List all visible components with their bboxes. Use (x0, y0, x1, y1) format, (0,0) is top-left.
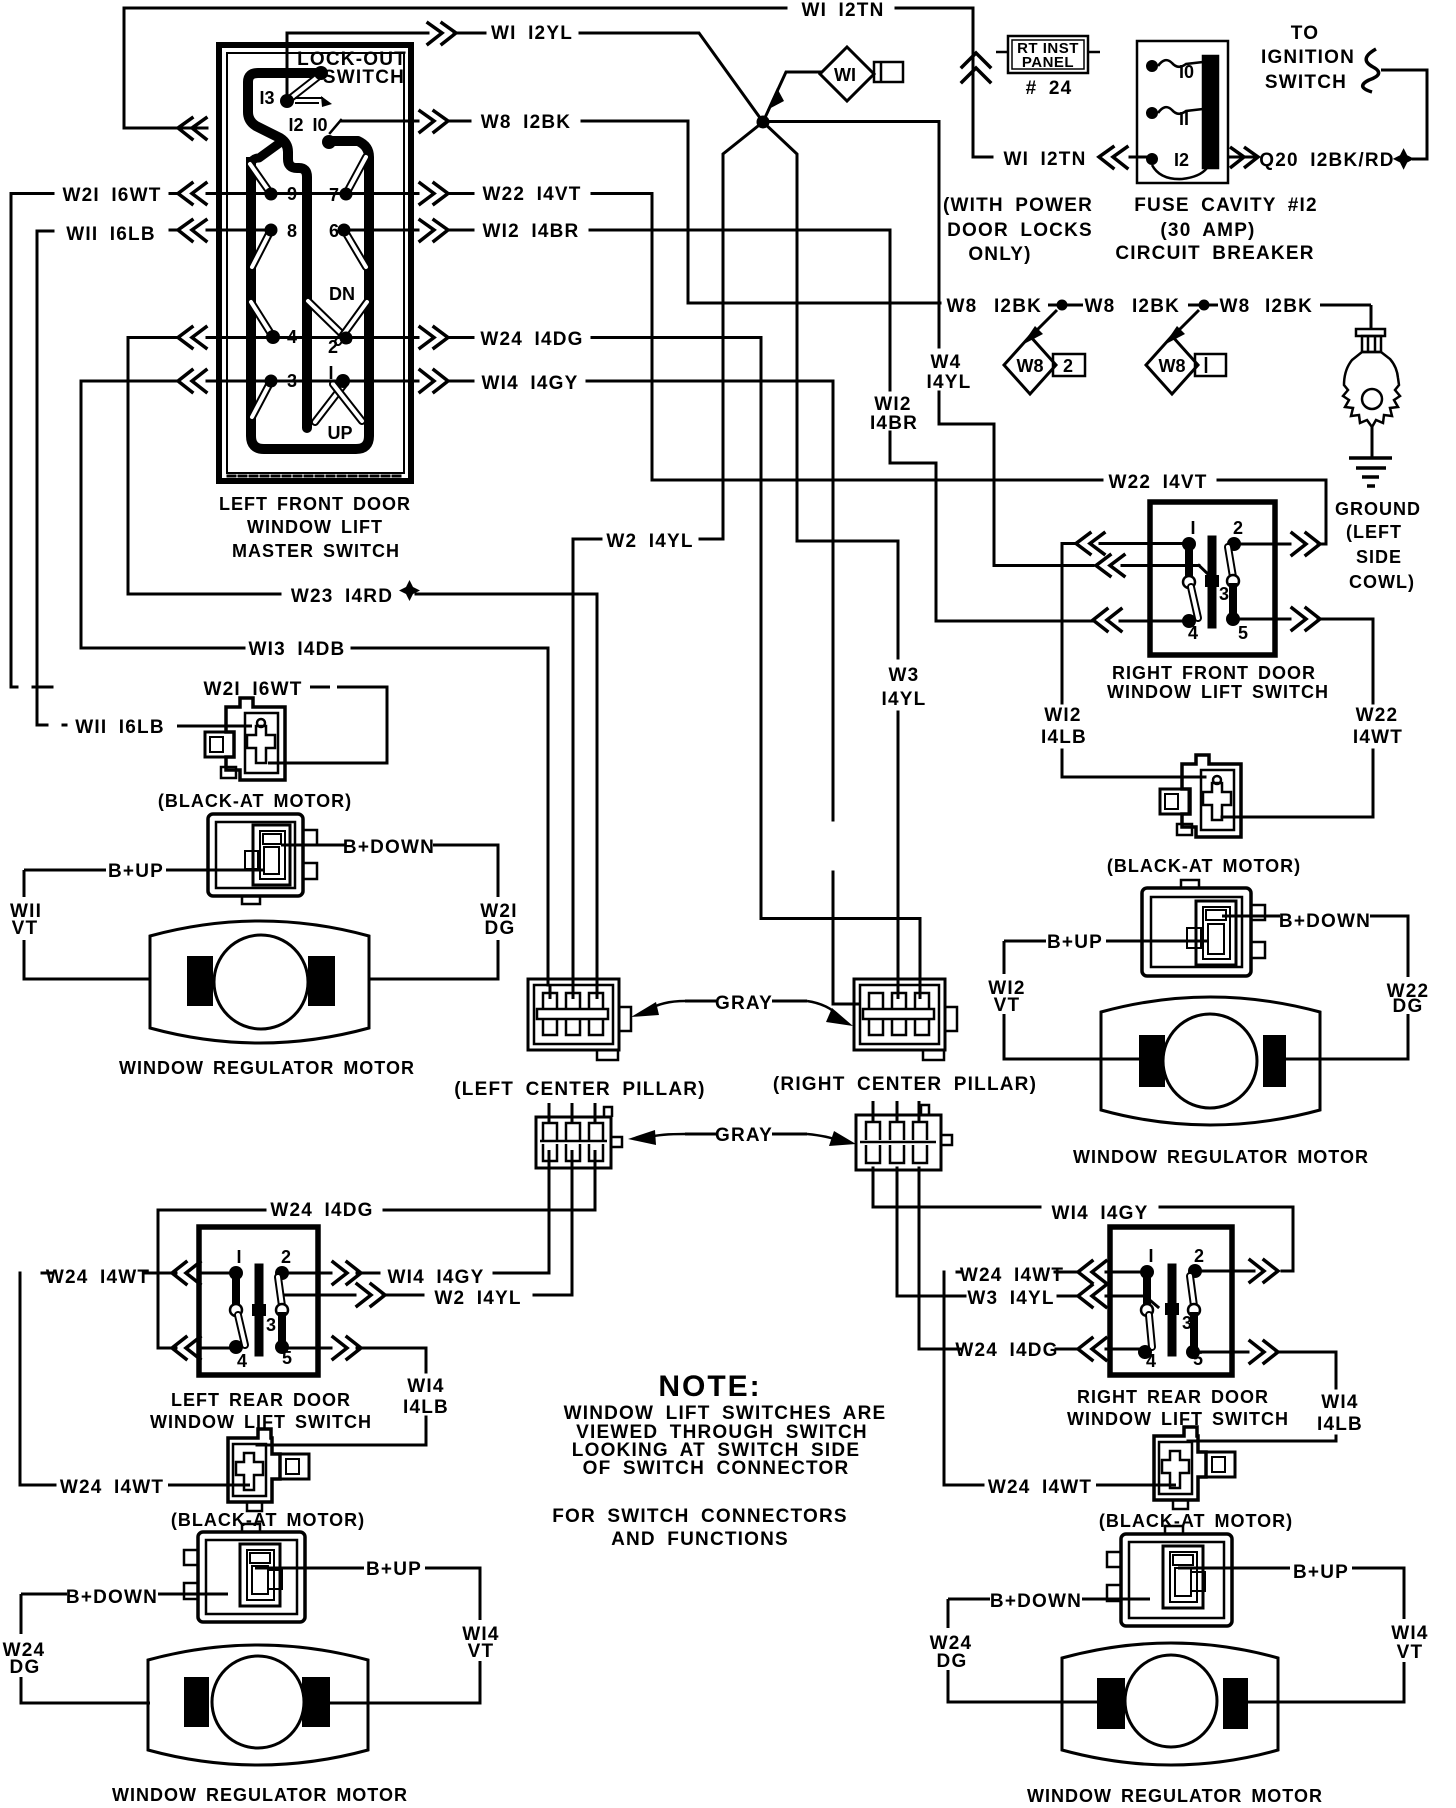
pin 6 lever (344, 230, 366, 267)
right front door window lift switch box (1150, 502, 1275, 655)
wire W8 12BK segments with junction dots (1048, 304, 1083, 307)
arrow to diamond W8 1 (1172, 310, 1199, 337)
svg-text:Q20 I2BK/RD: Q20 I2BK/RD (1259, 150, 1394, 171)
wire W1 12YL (287, 33, 428, 95)
RRD pin 1 dot and bar (1140, 1265, 1154, 1279)
ignition switch squiggle (1363, 49, 1379, 92)
svg-text:B+DOWN: B+DOWN (990, 1591, 1082, 1612)
svg-text:W8: W8 (1159, 356, 1186, 376)
svg-text:VT: VT (1397, 1642, 1424, 1663)
wire W24 14WT to RR connector (1096, 1484, 1176, 1487)
svg-text:TO: TO (1291, 23, 1319, 44)
wire labels: W1 12TN, W1 12YL, W8 12BK, W22 14VT, W12 14BR, W24 14DG, W14 14GY, W21 16WT, W11 16LB (62, 0, 1086, 394)
pin 1 UP levers (315, 383, 345, 422)
LRD pin 1 dot and bar (229, 1266, 243, 1280)
svg-text:DOOR LOCKS: DOOR LOCKS (947, 220, 1093, 241)
svg-text:LEFT FRONT DOOR: LEFT FRONT DOOR (219, 494, 411, 514)
svg-text:WI: WI (834, 65, 856, 85)
svg-text:I2: I2 (288, 115, 303, 135)
RFD row3 wire (pin 4) (936, 620, 1093, 623)
chevron right W22 14VT (420, 183, 448, 204)
GRAY label lower with arrows (685, 1133, 716, 1136)
svg-text:ONLY): ONLY) (968, 244, 1031, 265)
RFD lever 1-4 (1191, 587, 1198, 618)
wire W2 14YL vertical from junction (700, 122, 763, 539)
svg-text:DG: DG (937, 1651, 968, 1672)
fuse cavity #12 circuit breaker box (1137, 41, 1228, 183)
svg-text:# 24: # 24 (1026, 78, 1073, 99)
wire W1 12TN down to breaker (973, 8, 992, 157)
wire W24 14WT row1 LRD (20, 1273, 55, 1485)
svg-text:5: 5 (1193, 1349, 1203, 1369)
chevron right LRD pin2 (333, 1262, 361, 1284)
svg-text:W22 I4VT: W22 I4VT (1108, 472, 1207, 493)
svg-text:WINDOW REGULATOR MOTOR: WINDOW REGULATOR MOTOR (119, 1058, 415, 1078)
chevron right pin1 row (420, 370, 448, 392)
wire W24 14WT row1 RRD (944, 1272, 983, 1485)
labels B+UP B+DOWN W11 VT W21 DG LF (10, 837, 518, 939)
svg-text:LEFT REAR DOOR: LEFT REAR DOOR (171, 1390, 351, 1410)
svg-text:I: I (1148, 1246, 1153, 1266)
svg-text:5: 5 (282, 1348, 292, 1368)
RRD lever 2-3 (1190, 1276, 1194, 1306)
chevron right LRD pin3 (357, 1284, 385, 1306)
svg-text:W24 I4WT: W24 I4WT (60, 1477, 164, 1498)
label W24 14WT to RR motor connector (988, 1477, 1092, 1498)
LRD pin 2 dot (275, 1266, 289, 1280)
wire W3 14YL from lower pillar to RRD pin3 (897, 1168, 965, 1296)
svg-text:I4LB: I4LB (1041, 727, 1087, 748)
svg-text:(BLACK-AT MOTOR): (BLACK-AT MOTOR) (158, 791, 352, 811)
svg-text:WI I2TN: WI I2TN (1003, 149, 1086, 170)
svg-text:W24 I4WT: W24 I4WT (960, 1265, 1064, 1286)
wire W21 16WT row at pin 9 (207, 192, 271, 195)
svg-text:FOR SWITCH CONNECTORS: FOR SWITCH CONNECTORS (552, 1506, 848, 1527)
svg-text:DG: DG (485, 918, 516, 939)
connector diamond W8 2 (1004, 336, 1056, 394)
svg-text:2: 2 (1194, 1246, 1204, 1266)
svg-text:2: 2 (1233, 518, 1243, 538)
svg-text:COWL): COWL) (1349, 572, 1415, 592)
ground symbol (left side cowl) (1349, 456, 1392, 460)
svg-text:WI2 I4BR: WI2 I4BR (483, 221, 580, 242)
svg-text:4: 4 (1146, 1351, 1156, 1371)
RFD pin2 output wire to W22 14VT (1234, 543, 1290, 546)
svg-text:RIGHT FRONT DOOR: RIGHT FRONT DOOR (1112, 663, 1316, 683)
connector right center pillar (lower) (856, 1115, 941, 1170)
svg-text:W22: W22 (1356, 705, 1399, 726)
labels breaker pins 10 11 12 and FUSE CAVITY / WITH POWER DOOR LOCKS (943, 62, 1318, 265)
junction dot 2 (1199, 300, 1210, 311)
svg-text:AND FUNCTIONS: AND FUNCTIONS (611, 1529, 789, 1550)
labels LRD switch pins, name and wire labels (46, 1200, 522, 1432)
svg-text:2: 2 (281, 1247, 291, 1267)
wire W24 14WT to LR connector (168, 1484, 250, 1487)
chevron right pin2 row (420, 327, 448, 348)
svg-text:WINDOW REGULATOR MOTOR: WINDOW REGULATOR MOTOR (1073, 1147, 1369, 1167)
wire B+UP RR (1178, 1567, 1290, 1570)
svg-text:WINDOW LIFT SWITCH: WINDOW LIFT SWITCH (1107, 682, 1329, 702)
master switch thick trace (pin 12/13 hook and divider) (248, 73, 321, 428)
chevron up on W1 12TN vertical (962, 53, 990, 82)
svg-text:WINDOW LIFT SWITCH: WINDOW LIFT SWITCH (1067, 1409, 1289, 1429)
svg-text:PANEL: PANEL (1022, 54, 1074, 71)
wire W22 14VT from pin 7 (346, 192, 418, 195)
svg-text:WINDOW REGULATOR MOTOR: WINDOW REGULATOR MOTOR (1027, 1786, 1323, 1806)
wire W1 12TN top run (124, 8, 786, 128)
svg-text:RIGHT REAR DOOR: RIGHT REAR DOOR (1077, 1387, 1269, 1407)
svg-text:SIDE: SIDE (1356, 547, 1402, 567)
svg-text:WINDOW REGULATOR MOTOR: WINDOW REGULATOR MOTOR (112, 1785, 408, 1805)
pin 8 lever (252, 230, 271, 267)
svg-text:CIRCUIT BREAKER: CIRCUIT BREAKER (1115, 243, 1314, 264)
svg-text:B+UP: B+UP (108, 861, 164, 882)
svg-text:I: I (1190, 518, 1195, 538)
svg-text:GROUND: GROUND (1335, 499, 1421, 519)
svg-text:W24 I4WT: W24 I4WT (46, 1267, 150, 1288)
svg-text:W4: W4 (931, 352, 962, 373)
RRD pin 5 dot (1186, 1345, 1200, 1359)
chevron left LRD pin1 (172, 1262, 200, 1284)
RRD pin 3 bar (1168, 1268, 1177, 1352)
svg-text:(BLACK-AT MOTOR): (BLACK-AT MOTOR) (1099, 1511, 1293, 1531)
RFD row1 wire (pin 1 / W12 14LB) (1062, 542, 1076, 545)
note text block (552, 1370, 886, 1550)
wire W23 14RD from pin 4 (128, 338, 280, 595)
svg-text:I2BK: I2BK (1265, 296, 1313, 317)
pin 4 lever (251, 302, 273, 337)
wire W3 14YL from junction (763, 122, 898, 658)
svg-text:4: 4 (1188, 623, 1198, 643)
LRD pin 5 dot (275, 1340, 289, 1354)
chevron left RRD pin1 (1078, 1261, 1106, 1283)
star on W23 14RD label (399, 580, 420, 601)
wire stubs into upper left pillar connector (549, 985, 552, 999)
chevron left W1 12TN at breaker (1099, 147, 1127, 168)
svg-text:I2BK: I2BK (1132, 296, 1180, 317)
B+ connector RF (1142, 888, 1251, 976)
svg-text:WI4: WI4 (407, 1376, 444, 1397)
svg-text:WI2: WI2 (1044, 705, 1081, 726)
svg-text:W8: W8 (1085, 296, 1116, 317)
wire W24 14DG from lower pillar to RRD pin4 (919, 1168, 960, 1349)
wire B+DOWN RR (948, 1598, 990, 1601)
svg-text:W2I I6WT: W2I I6WT (203, 679, 302, 700)
svg-text:W22 I4VT: W22 I4VT (482, 184, 581, 205)
RFD pin 3 bar (1208, 540, 1217, 624)
left rear door window lift switch box (199, 1227, 318, 1375)
svg-text:DG: DG (10, 1657, 41, 1678)
chevron right W1 12YL (428, 23, 456, 44)
connector diamond W8 1 (1146, 336, 1198, 394)
svg-text:VT: VT (12, 918, 39, 939)
svg-text:2: 2 (1063, 356, 1073, 376)
svg-text:3: 3 (266, 1315, 276, 1335)
rt inst panel #24 box (1008, 36, 1088, 73)
black-at-motor connector RF (1182, 755, 1241, 837)
svg-text:FUSE CAVITY #I2: FUSE CAVITY #I2 (1134, 195, 1318, 216)
svg-text:5: 5 (1238, 623, 1248, 643)
svg-text:2: 2 (328, 337, 338, 357)
svg-text:DN: DN (329, 284, 355, 304)
svg-text:DG: DG (1393, 996, 1424, 1017)
pin 13 lever (287, 76, 319, 101)
RFD pin 1 dot and bar (1182, 537, 1196, 551)
chevron left RRD pin4 (1078, 1338, 1106, 1360)
wire W21 16WT label2 to connector (310, 686, 330, 689)
chevron left W22 14VT at master (178, 183, 206, 204)
arrow to diamond W8 2 (1030, 310, 1057, 337)
master switch texts: LOCK-OUT SWITCH, pin numbers, DN/UP, name (219, 49, 411, 561)
svg-text:I4LB: I4LB (403, 1397, 449, 1418)
wire B+DOWN RF (1222, 915, 1280, 918)
black-at-motor connector LR (228, 1429, 280, 1502)
labels RRD switch pins, name and wire labels (955, 1203, 1363, 1435)
svg-text:WI2: WI2 (874, 394, 911, 415)
junction dot 1 (1057, 300, 1068, 311)
LRD pin 3 bar (255, 1268, 264, 1352)
labels GRAY and center pillar names (454, 993, 1037, 1146)
label W24 14WT to LR motor connector (60, 1477, 164, 1498)
breaker pin 10 dot and wire (1146, 60, 1158, 72)
svg-text:II: II (1179, 109, 1189, 129)
wire W13 14DB from pin 3 (81, 381, 244, 648)
chevron right LRD pin5 (333, 1337, 361, 1359)
left front door window lift master switch outer box (219, 45, 411, 481)
wire W11 16LB label2 to connector (177, 725, 252, 728)
RRD pin 2 dot (1188, 1264, 1202, 1278)
svg-text:WII I6LB: WII I6LB (75, 717, 165, 738)
connector right center pillar (upper) (854, 979, 945, 1050)
svg-text:I0: I0 (1179, 62, 1194, 82)
pin 9 lever (250, 164, 271, 194)
right rear door window lift switch box (1110, 1227, 1232, 1375)
chevron left RFD pin4 (1093, 609, 1121, 631)
wire B+UP LR (255, 1567, 364, 1570)
svg-text:(RIGHT CENTER PILLAR): (RIGHT CENTER PILLAR) (773, 1074, 1037, 1095)
svg-text:SWITCH: SWITCH (323, 67, 405, 88)
RFD pin 2 dot (1227, 537, 1241, 551)
pin 3 lever (252, 381, 271, 417)
junction node (power feed) (757, 116, 770, 129)
labels B+UP B+DOWN W24 DG W14 VT RR (930, 1562, 1429, 1672)
svg-text:I3: I3 (259, 88, 274, 108)
wire W8 12BK from pin 10 (341, 120, 418, 123)
chevron right W8 12BK (420, 111, 448, 132)
star on Q20 label (1393, 148, 1415, 170)
master switch pin dots (314, 66, 328, 80)
wire W1 to diamond connector (763, 72, 820, 122)
svg-text:VT: VT (994, 995, 1021, 1016)
chevron right RFD pin2 (1292, 533, 1320, 555)
chevron left pin3 row (178, 370, 206, 392)
svg-text:WI4: WI4 (1321, 1392, 1358, 1413)
labels W21 16WT / W11 16LB at LF connector (75, 679, 302, 738)
LRD lever 2-3 (278, 1277, 282, 1306)
connector left center pillar (upper) (528, 979, 619, 1050)
chevron left W1 12TN at master switch (178, 118, 206, 139)
lock-out actuation arrow (296, 97, 322, 99)
breaker pin 12 dot and curve (1146, 153, 1158, 165)
breaker bus bar (1203, 56, 1218, 168)
svg-text:W8: W8 (1220, 296, 1251, 317)
svg-text:W24 I4WT: W24 I4WT (988, 1477, 1092, 1498)
B+ connector LR (198, 1532, 305, 1622)
black-at-motor connector LF (226, 698, 285, 780)
chevron right W12 14BR (420, 220, 448, 241)
chevron right RFD pin5 (1292, 608, 1320, 630)
svg-text:WI4: WI4 (1391, 1623, 1428, 1644)
svg-text:W2 I4YL: W2 I4YL (606, 531, 693, 552)
B+ connector RR (1121, 1534, 1232, 1626)
svg-text:WINDOW LIFT: WINDOW LIFT (247, 517, 383, 537)
svg-text:B+DOWN: B+DOWN (343, 837, 435, 858)
RFD lever 2-3 (1228, 547, 1233, 577)
svg-text:(BLACK-AT MOTOR): (BLACK-AT MOTOR) (1107, 856, 1301, 876)
labels RFD switch pins and name, W12 14LB, W22 14WT (1041, 518, 1403, 748)
wire Q20 12BK/RD to ignition (1228, 156, 1258, 159)
svg-text:GRAY: GRAY (715, 1125, 773, 1146)
svg-text:W8 I2BK: W8 I2BK (481, 112, 571, 133)
RFD pin 4 dot (1182, 614, 1196, 628)
svg-text:OF SWITCH CONNECTOR: OF SWITCH CONNECTOR (583, 1458, 850, 1479)
svg-text:(WITH POWER: (WITH POWER (943, 195, 1093, 216)
wire W14 14GY row pins 3/1 (81, 380, 176, 383)
window regulator motor LR (148, 1645, 368, 1765)
svg-text:(30 AMP): (30 AMP) (1160, 220, 1255, 241)
svg-text:W24 I4DG: W24 I4DG (955, 1340, 1058, 1361)
svg-text:W3: W3 (889, 665, 920, 686)
svg-text:I: I (236, 1247, 241, 1267)
svg-text:3: 3 (1219, 584, 1229, 604)
LRD bar 3-5 (278, 1316, 286, 1344)
chevron left RFD pin3 (1096, 555, 1124, 576)
pin 7 lever (346, 157, 366, 194)
black-at-motor connector RR (1154, 1427, 1206, 1500)
LRD lever 1-4 (238, 1315, 245, 1345)
chevron right RRD pin5 (1250, 1341, 1278, 1363)
svg-text:WI I2TN: WI I2TN (801, 0, 884, 21)
wire W24 14DG row pins 4/2 (128, 336, 176, 339)
chevron left LRD pin4 (172, 1337, 200, 1359)
svg-text:GRAY: GRAY (715, 993, 773, 1014)
svg-text:(LEFT CENTER PILLAR): (LEFT CENTER PILLAR) (454, 1079, 705, 1100)
wire W14 14LB from LRD pin5 (282, 1347, 331, 1350)
svg-text:B+DOWN: B+DOWN (1279, 911, 1371, 932)
svg-text:IGNITION: IGNITION (1261, 47, 1355, 68)
svg-text:W24 I4DG: W24 I4DG (480, 329, 583, 350)
svg-text:8: 8 (287, 221, 297, 241)
svg-text:WI3 I4DB: WI3 I4DB (249, 639, 346, 660)
svg-text:WI4 I4GY: WI4 I4GY (482, 373, 579, 394)
svg-text:W8: W8 (1017, 356, 1044, 376)
window regulator motor RR (1062, 1643, 1278, 1765)
wire W14 14LB from RRD pin5 (1193, 1351, 1248, 1354)
breaker pin 11 dot and wire (1146, 107, 1158, 119)
RRD bar 3-5 (1190, 1316, 1198, 1349)
pin 10 slash to W8 line (330, 120, 341, 133)
wire W11 16LB (207, 229, 271, 232)
wire B+DOWN LR (21, 1593, 67, 1596)
GRAY label upper with arrows (685, 1000, 716, 1003)
window regulator motor RF (1101, 997, 1320, 1125)
svg-text:W8: W8 (947, 296, 978, 317)
chevron right RRD pin2 (1250, 1260, 1278, 1282)
svg-text:W2 I4YL: W2 I4YL (434, 1288, 521, 1309)
svg-text:W2I I6WT: W2I I6WT (62, 185, 161, 206)
svg-text:MASTER SWITCH: MASTER SWITCH (232, 541, 400, 561)
svg-text:I0: I0 (312, 115, 327, 135)
svg-text:I2BK: I2BK (994, 296, 1042, 317)
labels RT INST PANEL #24 (1017, 40, 1079, 99)
svg-text:W24 I4DG: W24 I4DG (270, 1200, 373, 1221)
wire W14 14GY from LRD pin2 to lower pillar (282, 1272, 331, 1275)
B+ connector LF (208, 814, 303, 896)
master switch thick loop (251, 142, 281, 166)
svg-text:(BLACK-AT MOTOR): (BLACK-AT MOTOR) (171, 1510, 365, 1530)
svg-text:(LEFT: (LEFT (1346, 522, 1402, 542)
wire labels mid: W23 14RD, W13 14DB, W2 14YL, W4 14YL, W12 14BR, W3 14YL, W22 14VT (249, 352, 1208, 710)
RFD pin 5 dot (1226, 612, 1240, 626)
lamp ground stem (1371, 426, 1374, 457)
chevron left RRD pin3 (1078, 1285, 1106, 1307)
window regulator motor LF (150, 921, 369, 1043)
wire W4 14YL from junction to pin 3 RFD (763, 122, 939, 348)
svg-text:NOTE:: NOTE: (658, 1370, 761, 1403)
labels B+UP B+DOWN W24 DG W14 VT LR (3, 1559, 500, 1678)
chevron left W11 16LB (178, 220, 206, 241)
RFD pin5 output wire to W22 14WT (1236, 618, 1290, 621)
wire B+DOWN LF (281, 844, 346, 847)
lamp symbol (1356, 329, 1385, 336)
RRD pin 4 dot (1138, 1345, 1152, 1359)
LRD pin 4 dot (229, 1340, 243, 1354)
RRD lever 1-4 (1149, 1315, 1152, 1347)
chevron left pin4 row (178, 327, 206, 348)
connector W1 diamond (820, 47, 874, 101)
svg-text:WII I6LB: WII I6LB (66, 224, 156, 245)
svg-text:B+DOWN: B+DOWN (66, 1587, 158, 1608)
svg-text:SWITCH: SWITCH (1265, 72, 1347, 93)
svg-text:B+UP: B+UP (1047, 932, 1103, 953)
svg-text:I4YL: I4YL (882, 689, 927, 710)
wire stubs lower-left pillar connector (548, 1103, 551, 1123)
RFD row2 wire (pin 3) (1160, 564, 1199, 567)
svg-text:B+UP: B+UP (1293, 1562, 1349, 1583)
svg-text:4: 4 (237, 1351, 247, 1371)
pin 2 DN levers (308, 301, 348, 340)
wire W2 14YL from LRD pin3 to lower pillar (285, 1294, 355, 1297)
svg-text:I2: I2 (1174, 150, 1189, 170)
svg-text:6: 6 (329, 221, 339, 241)
labels B+UP B+DOWN W12 VT W22 DG RF (988, 911, 1429, 1017)
svg-text:UP: UP (327, 423, 352, 443)
svg-text:WI4 I4GY: WI4 I4GY (388, 1267, 485, 1288)
connector left center pillar (lower) (536, 1117, 611, 1168)
RFD bar 3-5 (1229, 587, 1237, 617)
svg-text:B+UP: B+UP (366, 1559, 422, 1580)
labels W8 12BK row and diamond cavity numbers (947, 296, 1314, 376)
labels GROUND (LEFT SIDE COWL) (1335, 499, 1421, 592)
svg-text:I4BR: I4BR (870, 413, 918, 434)
labels TO IGNITION SWITCH / Q20 12BK/RD (1259, 23, 1394, 171)
svg-text:I4LB: I4LB (1317, 1414, 1363, 1435)
svg-text:WI I2YL: WI I2YL (491, 23, 573, 44)
svg-text:3: 3 (1182, 1313, 1192, 1333)
chevron left RFD pin1 (1076, 533, 1104, 554)
wire W14 14GY from lower pillar to RRD pin 2 (873, 1168, 1040, 1207)
wire W12 14BR from pin 6 (344, 229, 418, 232)
